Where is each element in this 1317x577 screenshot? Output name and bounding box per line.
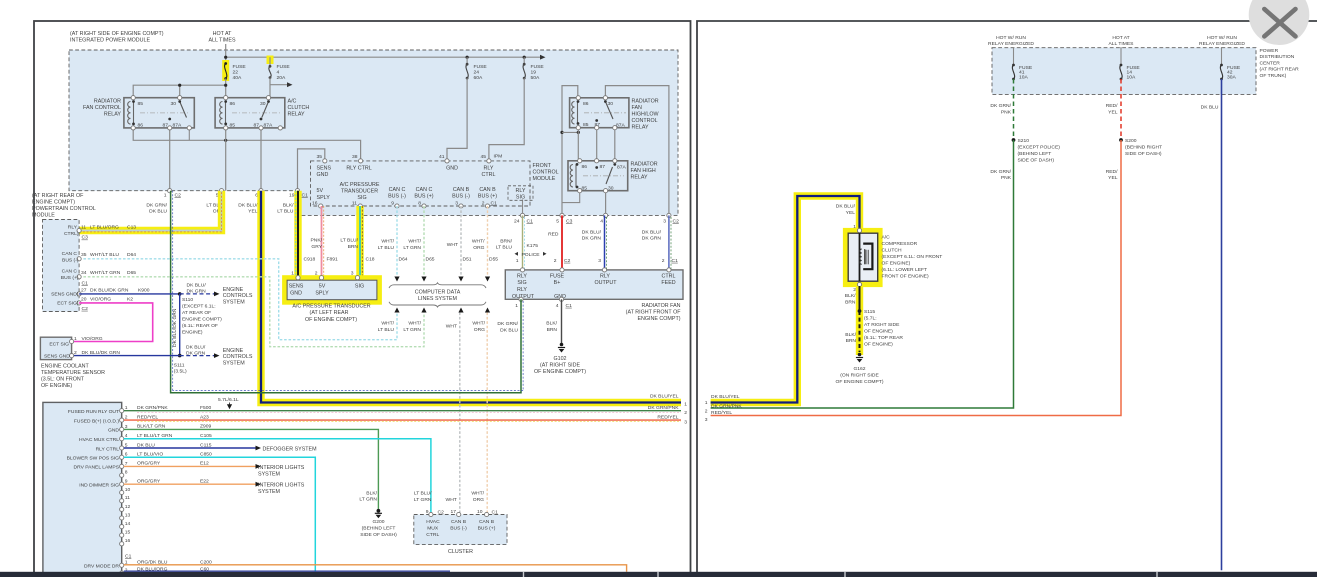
svg-text:13: 13 <box>125 512 131 518</box>
svg-text:G200: G200 <box>372 519 384 525</box>
splice S110 <box>178 292 182 296</box>
DK BLU/DK GRN label above arrow <box>187 282 207 294</box>
svg-text:1: 1 <box>74 336 77 342</box>
G200 caption <box>360 519 397 538</box>
junction feed bus at fuse22 <box>224 56 227 59</box>
svg-text:CTRL: CTRL <box>426 532 439 538</box>
right panel border <box>697 21 1317 573</box>
svg-text:BLK/: BLK/ <box>546 321 557 327</box>
svg-text:5: 5 <box>556 218 559 224</box>
svg-text:D64: D64 <box>127 252 136 258</box>
arrow down D51 <box>458 277 463 282</box>
svg-text:A/C: A/C <box>288 98 297 104</box>
svg-text:GRY: GRY <box>311 244 322 250</box>
wire DK BLU/YEL highlighted: IPM pin6 down to bottom <box>261 191 681 403</box>
svg-text:ENGINE COMPT): ENGINE COMPT) <box>32 200 75 206</box>
svg-text:S110: S110 <box>182 297 193 303</box>
svg-text:C1: C1 <box>527 218 534 224</box>
svg-text:BRN: BRN <box>348 244 359 250</box>
FCM caption <box>533 163 559 182</box>
svg-text:1: 1 <box>684 401 687 407</box>
svg-text:CTRL: CTRL <box>662 274 676 280</box>
svg-text:BUS (-): BUS (-) <box>450 526 467 532</box>
wire WHT down to cluster <box>459 313 461 515</box>
svg-text:SYSTEM: SYSTEM <box>223 361 246 367</box>
ECT labels <box>44 342 70 360</box>
svg-text:9: 9 <box>391 200 394 206</box>
svg-text:COMPUTER DATA: COMPUTER DATA <box>415 289 461 295</box>
svg-text:VIO/ORG: VIO/ORG <box>90 297 111 303</box>
svg-text:BLOWER SW POS SIG: BLOWER SW POS SIG <box>67 456 120 462</box>
svg-text:4: 4 <box>600 218 603 224</box>
svg-text:8: 8 <box>418 200 421 206</box>
IPM bottom pin bumps row y215 <box>520 213 524 217</box>
svg-text:HOT W/ RUN: HOT W/ RUN <box>1207 35 1237 41</box>
svg-text:HOT W/ RUN: HOT W/ RUN <box>996 35 1026 41</box>
IPM wire color labels y203 <box>146 202 294 214</box>
hi-lo relay pin bumps <box>576 96 580 100</box>
svg-text:ECT SIG: ECT SIG <box>49 342 69 348</box>
totally integrated power module box <box>43 402 122 574</box>
arrow down D55 <box>485 277 490 282</box>
wire ECT pin2 to S111 <box>72 355 180 357</box>
high relay pin labels <box>582 164 627 192</box>
svg-text:DK BLU/DK GRN: DK BLU/DK GRN <box>172 308 178 347</box>
junction box bottom bumps <box>519 297 523 301</box>
svg-text:85: 85 <box>583 122 589 128</box>
svg-text:WHT/: WHT/ <box>472 321 485 327</box>
svg-text:OF ENGINE): OF ENGINE) <box>41 383 72 389</box>
wire LT BLU/ORG highlighted: IPM pin5 to PCM pin11 <box>79 191 222 231</box>
svg-text:(5.7L:: (5.7L: <box>864 316 877 322</box>
svg-text:50A: 50A <box>531 75 540 81</box>
svg-text:8: 8 <box>125 470 128 476</box>
svg-text:2: 2 <box>554 258 557 264</box>
svg-text:RED: RED <box>548 232 559 238</box>
svg-text:HVAC: HVAC <box>426 519 440 525</box>
svg-text:(AT LEFT REAR: (AT LEFT REAR <box>310 310 349 316</box>
svg-text:22: 22 <box>233 70 239 76</box>
svg-text:LT BLU: LT BLU <box>277 209 294 215</box>
left panel border <box>34 21 691 573</box>
svg-text:C2: C2 <box>82 306 89 312</box>
svg-text:BLK/: BLK/ <box>845 293 856 299</box>
svg-text:CENTER: CENTER <box>1260 60 1281 66</box>
svg-text:DK GRN: DK GRN <box>186 351 206 357</box>
wires: hi-lo relay to high relay <box>577 128 579 161</box>
svg-text:DK BLU/: DK BLU/ <box>582 229 602 235</box>
svg-text:TEMPERATURE SENSOR: TEMPERATURE SENSOR <box>41 370 105 376</box>
TIPM left labels <box>67 409 120 570</box>
svg-text:CAN B: CAN B <box>453 187 470 193</box>
svg-text:C1: C1 <box>125 554 132 560</box>
svg-text:LINES SYSTEM: LINES SYSTEM <box>418 296 457 302</box>
svg-text:LT BLU/: LT BLU/ <box>340 238 358 244</box>
svg-text:FUSE: FUSE <box>531 64 545 70</box>
svg-text:DK BLU/YEL: DK BLU/YEL <box>650 393 679 399</box>
svg-text:20: 20 <box>81 297 87 303</box>
svg-text:RELAY ENERGIZED: RELAY ENERGIZED <box>988 41 1034 47</box>
high relay caption <box>631 161 658 180</box>
wire VIO/ORG PCM pin20 to ECT pin1 <box>72 303 153 342</box>
svg-text:16: 16 <box>312 200 318 206</box>
svg-text:VIO/ORG: VIO/ORG <box>82 336 103 342</box>
radiator fan caption <box>626 303 682 322</box>
svg-text:2: 2 <box>482 200 485 206</box>
wire: fuse22 to AC relay 86 <box>225 79 227 98</box>
svg-text:AT REAR OF: AT REAR OF <box>182 310 211 316</box>
svg-text:LT BLU/: LT BLU/ <box>414 491 432 497</box>
wire WHT/LT BLU FCM to computer data lines <box>396 206 398 276</box>
svg-text:INTEGRATED POWER MODULE: INTEGRATED POWER MODULE <box>70 38 150 44</box>
transducer pin numbers <box>291 271 354 277</box>
svg-text:CONTROLS: CONTROLS <box>223 293 253 299</box>
svg-text:RLY: RLY <box>600 274 610 280</box>
svg-text:DRV PANEL LAMPS: DRV PANEL LAMPS <box>74 465 120 471</box>
svg-text:SIG: SIG <box>517 280 526 286</box>
hi-lo relay switch blade <box>605 102 613 120</box>
svg-text:LT BLU: LT BLU <box>496 245 513 251</box>
transducer labels <box>289 284 364 297</box>
svg-text:41: 41 <box>439 154 445 160</box>
svg-text:FRONT: FRONT <box>533 163 552 169</box>
svg-text:C1: C1 <box>302 193 309 199</box>
svg-text:SIDE OF DASH): SIDE OF DASH) <box>1125 151 1162 157</box>
svg-text:DISTRIBUTION: DISTRIBUTION <box>1260 54 1295 60</box>
svg-text:(3.5L: ON FRONT: (3.5L: ON FRONT <box>41 376 85 382</box>
svg-text:LT BLU/ORG: LT BLU/ORG <box>90 224 119 230</box>
S115 caption <box>864 309 903 348</box>
svg-text:C2: C2 <box>673 218 680 224</box>
svg-text:(BEHIND LEFT: (BEHIND LEFT <box>362 526 396 532</box>
svg-text:FRONT OF ENGINE): FRONT OF ENGINE) <box>882 274 929 280</box>
cluster box <box>414 515 507 545</box>
transducer caption <box>292 304 370 323</box>
svg-text:D65: D65 <box>426 257 435 263</box>
svg-text:K175: K175 <box>527 243 539 249</box>
svg-text:CONTROL: CONTROL <box>632 118 658 124</box>
svg-text:C2: C2 <box>175 193 182 199</box>
svg-text:10: 10 <box>125 487 131 493</box>
svg-text:SENS: SENS <box>289 284 304 290</box>
wire: fuse4 down to AC relay 30 <box>269 78 271 98</box>
svg-text:(BEHIND RIGHT: (BEHIND RIGHT <box>1125 144 1162 150</box>
FCM top pin labels <box>317 154 487 160</box>
svg-text:BRN: BRN <box>547 327 558 333</box>
PCM pin bumps <box>77 228 81 232</box>
svg-text:87A: 87A <box>173 123 182 129</box>
svg-text:86: 86 <box>583 101 589 107</box>
arrow up at 397 <box>394 308 399 313</box>
wire DK BLU fuse42 down <box>1221 79 1223 570</box>
svg-text:(EXCEPT 6.1L: ON FRONT: (EXCEPT 6.1L: ON FRONT <box>882 254 943 260</box>
svg-text:C18: C18 <box>366 257 375 263</box>
AC relay pin bumps <box>224 96 228 100</box>
svg-text:16: 16 <box>125 538 131 544</box>
wire DK GRN/DK BLU jbox pin1 loop to IPM pin1 <box>171 191 521 393</box>
svg-text:CLUTCH: CLUTCH <box>882 248 902 254</box>
svg-text:30: 30 <box>608 185 614 191</box>
svg-text:RED/YEL: RED/YEL <box>657 415 678 421</box>
svg-text:BRN/: BRN/ <box>500 238 512 244</box>
junction feed bus at fuse4 <box>268 56 271 59</box>
svg-text:FAN HIGH: FAN HIGH <box>631 168 656 174</box>
svg-text:S200: S200 <box>1125 138 1137 144</box>
fuse 4 label <box>277 64 291 81</box>
svg-text:3: 3 <box>684 419 687 425</box>
svg-text:WHT/: WHT/ <box>472 239 485 245</box>
svg-text:RLY: RLY <box>517 287 527 293</box>
wire: high relay 30 to IPM pin4 <box>605 191 607 216</box>
svg-text:G162: G162 <box>853 366 865 372</box>
svg-text:(6.1L: REAR OF: (6.1L: REAR OF <box>182 323 218 329</box>
svg-text:3: 3 <box>351 271 354 277</box>
left edge wire labels right panel <box>705 394 743 423</box>
close button <box>1249 0 1310 45</box>
svg-text:(ON RIGHT SIDE: (ON RIGHT SIDE <box>840 373 879 379</box>
svg-text:45: 45 <box>481 154 487 160</box>
arrow up at 461 <box>458 308 463 313</box>
cluster labels <box>426 519 495 538</box>
svg-text:(AT RIGHT SIDE OF ENGINE COMPT: (AT RIGHT SIDE OF ENGINE COMPT) <box>70 31 164 37</box>
junction box bottom pin labels <box>515 303 572 309</box>
PDC caption <box>1260 48 1300 79</box>
svg-text:DK GRN: DK GRN <box>187 289 207 295</box>
svg-text:5V: 5V <box>319 284 326 290</box>
A/C pressure transducer box highlighted <box>285 278 380 303</box>
svg-text:3: 3 <box>598 258 601 264</box>
svg-text:ALL TIMES: ALL TIMES <box>1109 41 1135 47</box>
wire: high relay 85 tie <box>562 191 580 203</box>
fuse 22 40A highlight <box>222 60 229 81</box>
svg-text:ENGINE COMPT): ENGINE COMPT) <box>182 317 222 323</box>
G200 labels <box>359 490 377 502</box>
wire ORG/GRY row7 to interior lights <box>124 465 256 467</box>
hi-lo relay pin labels <box>583 101 625 129</box>
wire: AC relay 87 to IPM pin6 <box>260 128 262 191</box>
wire BLK/BRN highlighted clutch to S115 <box>856 286 863 355</box>
svg-text:11: 11 <box>81 224 86 230</box>
svg-text:38: 38 <box>352 154 358 160</box>
IPM bottom pin labels y190 <box>164 193 308 199</box>
computer data lines system caption <box>415 289 461 302</box>
wire: fuse24 to FCM pin41 <box>447 78 467 159</box>
svg-text:GND: GND <box>446 166 458 172</box>
svg-text:INTERIOR LIGHTS: INTERIOR LIGHTS <box>258 483 305 489</box>
high relay coil <box>570 165 573 188</box>
svg-text:3: 3 <box>705 417 708 423</box>
svg-text:5.7L/6.1L: 5.7L/6.1L <box>218 397 239 403</box>
svg-text:1: 1 <box>515 303 518 309</box>
svg-text:MUX: MUX <box>427 526 439 532</box>
PCM connector section labels <box>82 235 89 312</box>
labels for transducer wires <box>310 238 358 250</box>
wire ORG/GRY row9 to interior lights <box>124 483 256 485</box>
hi-lo relay midline <box>584 112 626 114</box>
wire DK GRN/PNK row1 <box>124 410 681 412</box>
powertrain control module box <box>43 220 80 312</box>
svg-text:WHT: WHT <box>446 497 457 503</box>
wire WHT/ORG down to cluster <box>486 313 488 515</box>
svg-text:C2: C2 <box>564 258 571 264</box>
svg-text:85: 85 <box>138 101 144 107</box>
svg-text:PNK/: PNK/ <box>310 238 322 244</box>
wire DK BLU/DK GRN right to jbox <box>668 215 670 270</box>
computer data lines upper bracket <box>389 283 486 288</box>
svg-text:BRN: BRN <box>845 300 856 306</box>
svg-text:FUSE: FUSE <box>550 274 565 280</box>
feed wire into fuse 41 <box>1013 47 1015 65</box>
svg-text:BUS (-): BUS (-) <box>452 194 470 200</box>
wire WHT/LT GRN lower loop to PCM pin34 <box>79 277 424 347</box>
svg-text:1: 1 <box>516 258 519 264</box>
svg-text:SIG: SIG <box>355 284 364 290</box>
junction box top bumps <box>520 268 524 272</box>
svg-text:SIDE OF DASH): SIDE OF DASH) <box>1018 157 1055 163</box>
svg-text:OF TRUNK): OF TRUNK) <box>1260 73 1287 79</box>
svg-text:A/C: A/C <box>882 235 891 241</box>
relay1 caption <box>83 98 121 117</box>
svg-text:12: 12 <box>125 504 131 510</box>
svg-text:C13: C13 <box>127 224 136 230</box>
svg-text:OF ENGINE): OF ENGINE) <box>864 342 893 348</box>
svg-text:30: 30 <box>171 101 177 107</box>
svg-text:ENGINE COMPT): ENGINE COMPT) <box>637 316 680 322</box>
wire ORG/DK BLU C1 row1 <box>124 565 627 572</box>
svg-text:ENGINE: ENGINE <box>223 287 244 293</box>
svg-text:POWER: POWER <box>1260 48 1279 54</box>
svg-text:87A: 87A <box>617 164 626 170</box>
wire: coil control bus to FCM pin38 <box>133 128 360 159</box>
fuse F22 <box>224 62 227 65</box>
svg-text:DK BLU: DK BLU <box>149 209 167 215</box>
wire PNK/GRY: FCM pin16 to transducer pin2 <box>321 206 323 276</box>
svg-text:87A: 87A <box>616 122 625 128</box>
svg-text:CAN C: CAN C <box>416 187 433 193</box>
relay1 midline <box>140 112 190 114</box>
5.7L/6.1L variant marker <box>218 397 239 410</box>
svg-text:RLY CTRL: RLY CTRL <box>346 166 371 172</box>
hot at all times label <box>208 31 235 44</box>
svg-text:YEL: YEL <box>1108 109 1118 115</box>
engine controls system caption 2 <box>223 348 253 367</box>
svg-text:INTERIOR LIGHTS: INTERIOR LIGHTS <box>258 465 305 471</box>
svg-text:IPM: IPM <box>494 154 503 160</box>
FCM RLY SIG bracket <box>508 186 533 201</box>
DK BLU/DK GRN label above arrow 2 <box>186 344 206 356</box>
svg-text:PNK: PNK <box>1001 175 1012 181</box>
svg-text:85: 85 <box>230 122 236 128</box>
wire WHT FCM to computer data lines <box>460 206 462 276</box>
svg-text:MODULE: MODULE <box>32 213 55 219</box>
svg-text:SIG: SIG <box>357 195 366 201</box>
A/C compressor clutch box highlighted <box>846 231 881 285</box>
svg-text:DK GRN/: DK GRN/ <box>146 202 167 208</box>
svg-text:CTRL): CTRL) <box>64 231 79 237</box>
svg-text:SENS: SENS <box>317 166 332 172</box>
svg-text:FUSED B(+) (I.O.D.): FUSED B(+) (I.O.D.) <box>74 418 119 424</box>
FCM top pin bumps <box>323 159 327 163</box>
svg-text:RADIATOR FAN: RADIATOR FAN <box>642 303 681 309</box>
svg-text:HIGH/LOW: HIGH/LOW <box>632 111 660 117</box>
svg-text:DK GRN/PNK: DK GRN/PNK <box>711 403 742 409</box>
svg-text:A/C PRESSURE TRANSDUCER: A/C PRESSURE TRANSDUCER <box>292 304 370 310</box>
svg-text:10A: 10A <box>1127 75 1136 81</box>
clutch coil symbol <box>860 249 862 264</box>
svg-text:YEL: YEL <box>248 209 258 215</box>
svg-text:LT GRN: LT GRN <box>359 497 377 503</box>
front control module box <box>311 161 531 206</box>
svg-text:FAN CONTROL: FAN CONTROL <box>83 105 121 111</box>
svg-text:BLK/: BLK/ <box>366 490 377 496</box>
svg-text:ENGINE COOLANT: ENGINE COOLANT <box>41 363 90 369</box>
clutch plate bracket <box>863 244 872 270</box>
clutch core wire vertical <box>859 233 861 281</box>
svg-text:COMPRESSOR: COMPRESSOR <box>882 241 918 247</box>
fuse 41 10A <box>1012 64 1015 67</box>
svg-text:LT BLU: LT BLU <box>378 245 395 251</box>
wire WHT/LT GRN FCM to computer data lines <box>423 206 425 276</box>
transducer pin bumps <box>296 276 300 280</box>
svg-text:K2: K2 <box>127 297 133 303</box>
svg-text:BUS (-): BUS (-) <box>62 257 79 263</box>
svg-text:CLUSTER: CLUSTER <box>448 549 473 555</box>
svg-text:2: 2 <box>662 258 665 264</box>
svg-text:WHT/: WHT/ <box>408 239 421 245</box>
ground G200 <box>377 509 381 513</box>
arrow up at 424 <box>421 308 426 313</box>
splice S210 <box>1012 138 1016 142</box>
svg-text:RLY CTRL: RLY CTRL <box>96 446 120 452</box>
svg-text:CONTROLS: CONTROLS <box>223 354 253 360</box>
svg-text:HOT AT: HOT AT <box>213 31 233 37</box>
svg-text:CLUTCH: CLUTCH <box>288 105 310 111</box>
svg-text:C1: C1 <box>491 200 498 206</box>
high relay switch blade <box>606 167 613 184</box>
svg-text:BUS (+): BUS (+) <box>414 194 433 200</box>
TIPM wire labels <box>137 405 212 572</box>
wire RED <box>561 215 563 270</box>
hi-lo relay coil <box>572 102 575 124</box>
svg-text:87A: 87A <box>264 123 273 129</box>
svg-text:86: 86 <box>230 101 236 107</box>
splice S200 <box>1119 138 1123 142</box>
junction feed bus at fuse19 <box>523 56 526 59</box>
S110 caption <box>182 297 222 336</box>
ECT caption <box>41 363 105 389</box>
svg-text:GND: GND <box>317 172 329 178</box>
wire LT BLU/BRN highlighted: FCM pin11 to transducer pin3 <box>356 206 363 276</box>
svg-text:DK BLU/: DK BLU/ <box>186 344 206 350</box>
wire BRN/LT BLU K175 <box>522 215 524 270</box>
svg-text:(6.1L: TOP REAR: (6.1L: TOP REAR <box>864 335 903 341</box>
junction feed bus at fuse24 <box>466 56 469 59</box>
svg-text:87: 87 <box>600 164 606 170</box>
svg-text:HVAC MUX CTRL: HVAC MUX CTRL <box>79 437 119 443</box>
svg-text:FAN: FAN <box>632 105 643 111</box>
svg-text:CAN B: CAN B <box>479 187 496 193</box>
svg-text:DK GRN: DK GRN <box>642 236 662 242</box>
svg-text:86: 86 <box>138 122 144 128</box>
svg-text:DK GRN: DK GRN <box>582 236 602 242</box>
splice S115 <box>858 309 862 313</box>
svg-text:SYSTEM: SYSTEM <box>258 471 281 477</box>
svg-text:CAN B: CAN B <box>451 519 467 525</box>
svg-text:2: 2 <box>74 350 77 356</box>
svg-text:ALL TIMES: ALL TIMES <box>208 38 235 44</box>
svg-text:RED/YEL: RED/YEL <box>711 410 732 416</box>
integrated power module box <box>69 50 678 215</box>
